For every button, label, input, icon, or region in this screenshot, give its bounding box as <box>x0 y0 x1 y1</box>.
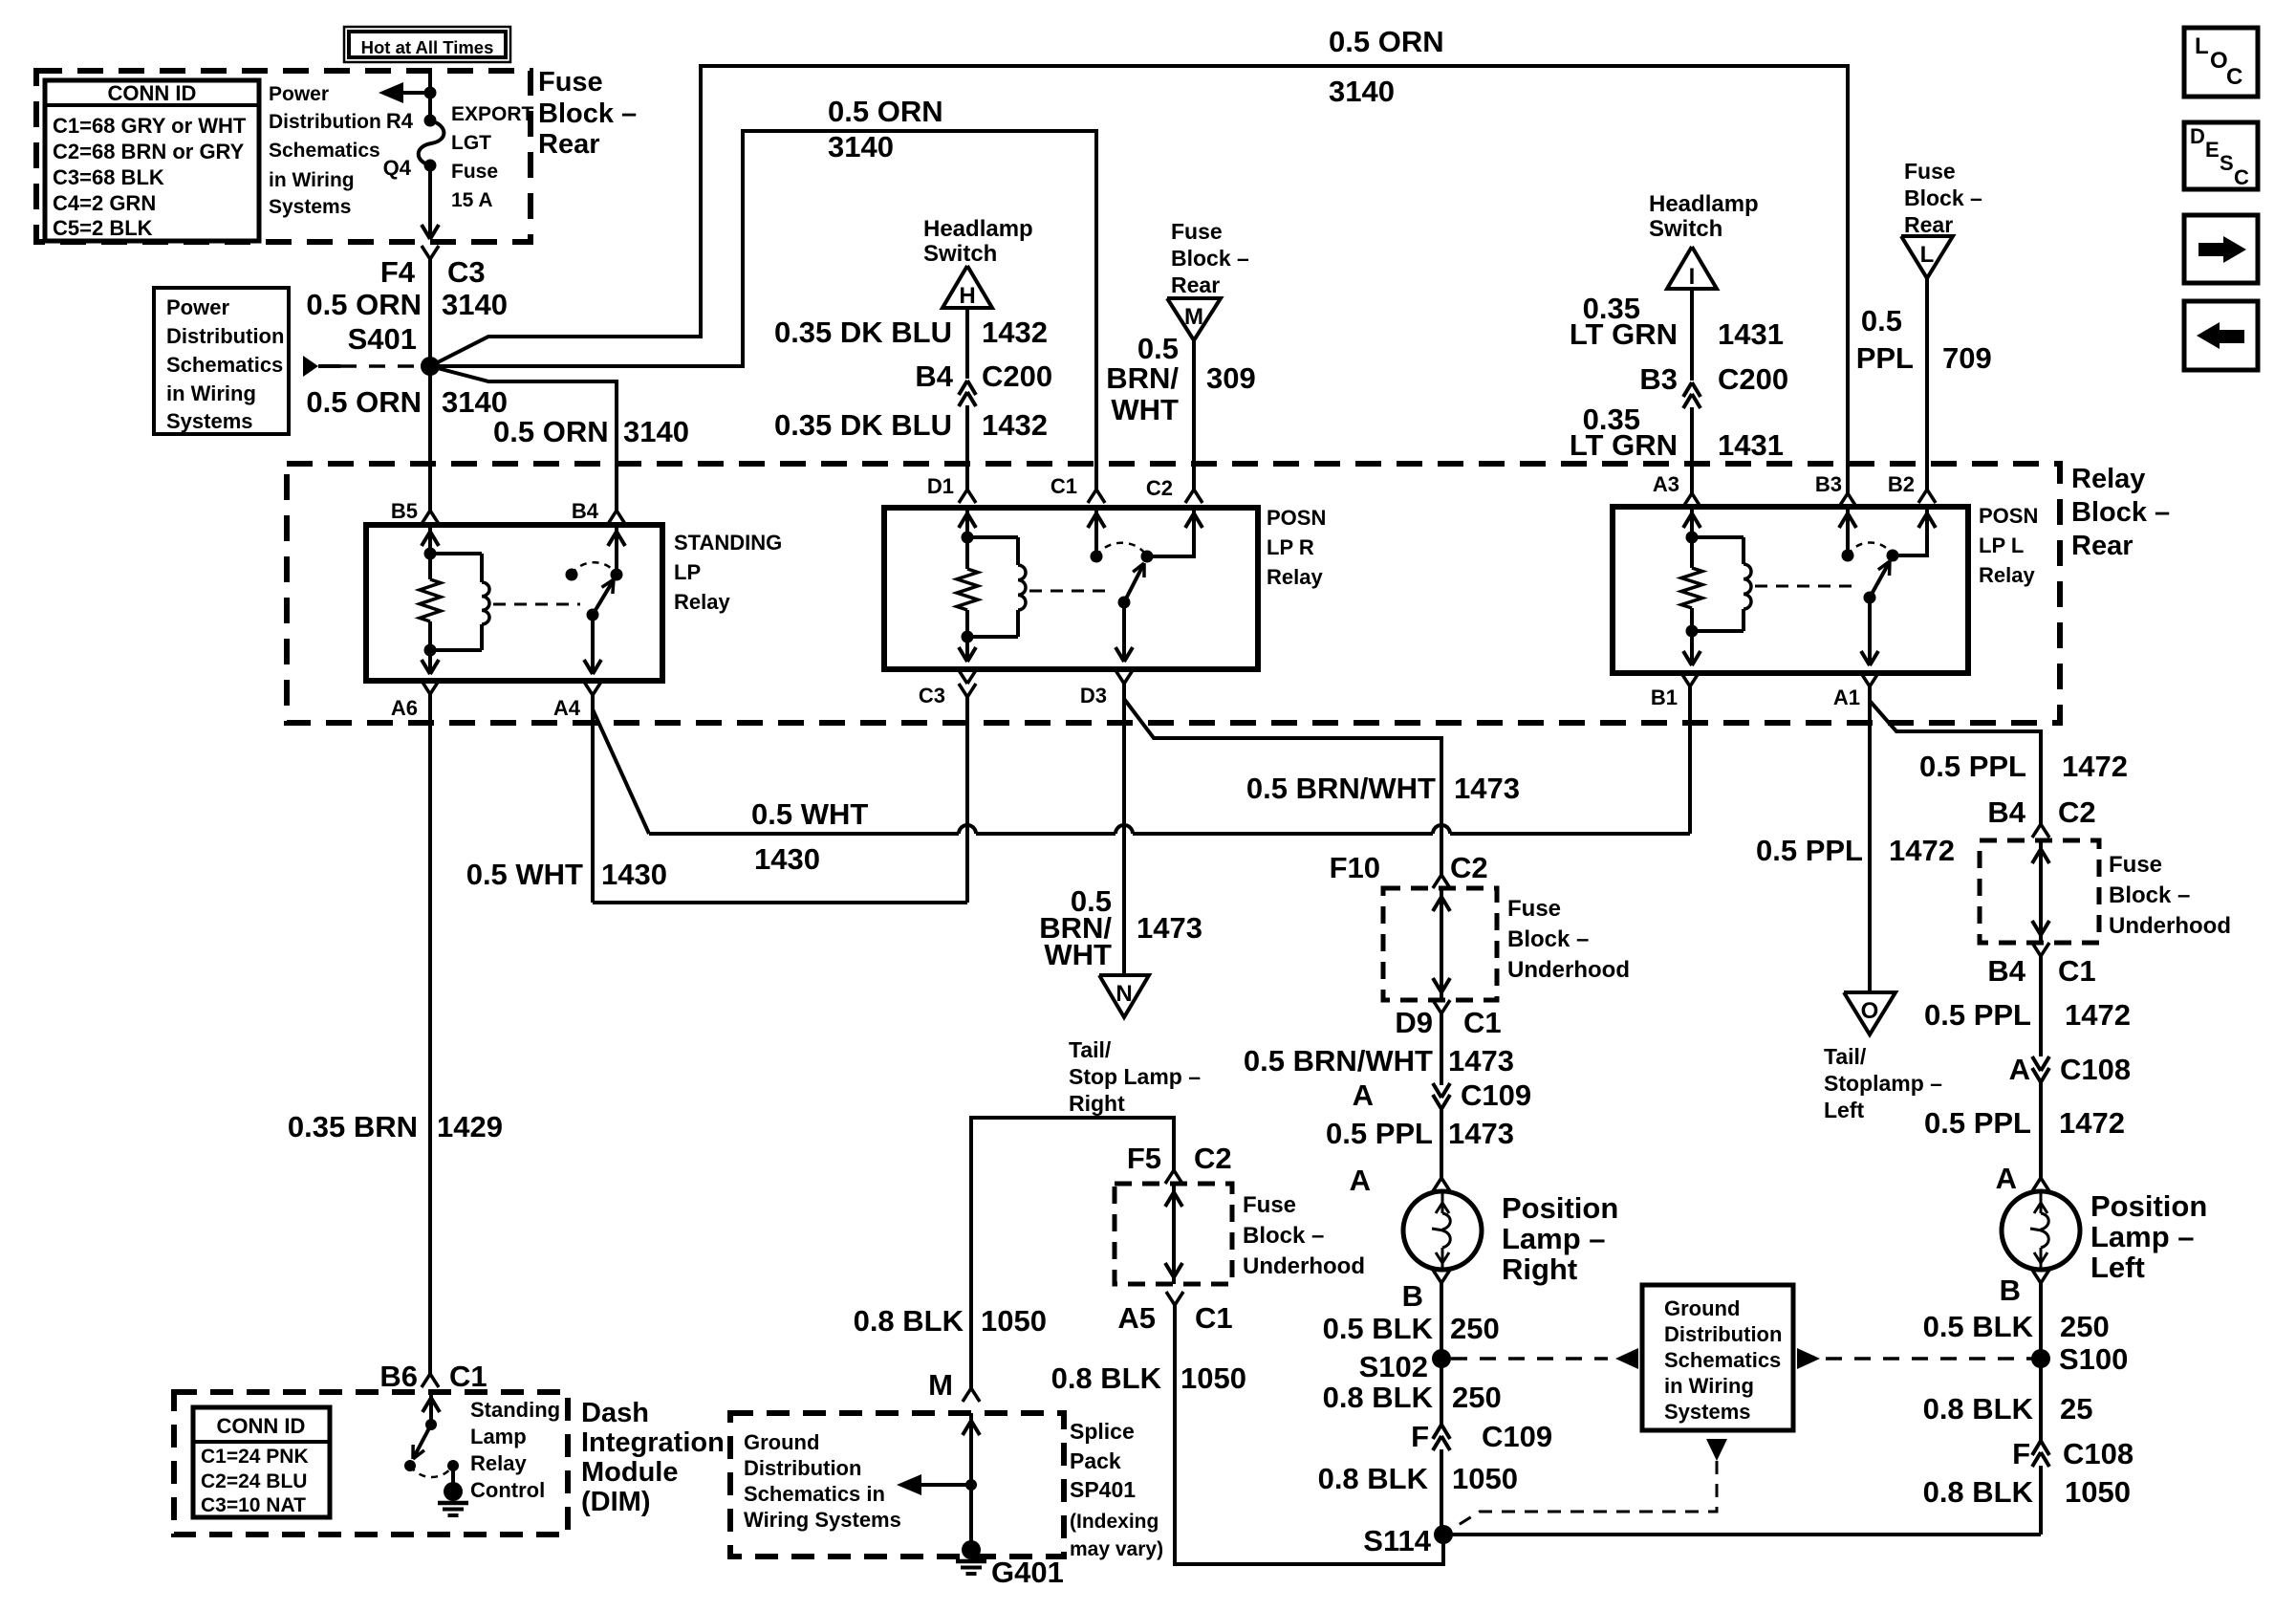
svg-text:Rear: Rear <box>2071 531 2134 561</box>
svg-text:B4: B4 <box>915 359 953 393</box>
svg-text:CONN ID: CONN ID <box>217 1414 306 1438</box>
svg-text:B5: B5 <box>391 499 418 523</box>
svg-text:0.5 WHT: 0.5 WHT <box>751 797 868 831</box>
svg-text:0.5 PPL: 0.5 PPL <box>1326 1117 1433 1150</box>
svg-text:Relay: Relay <box>674 590 730 614</box>
svg-text:(Indexing: (Indexing <box>1070 1511 1159 1533</box>
svg-text:Module: Module <box>581 1457 679 1488</box>
svg-text:0.8 BLK: 0.8 BLK <box>1051 1361 1162 1395</box>
svg-text:Fuse: Fuse <box>2109 852 2162 878</box>
svg-text:F: F <box>1411 1420 1429 1453</box>
svg-text:0.5 PPL: 0.5 PPL <box>1924 998 2031 1032</box>
svg-text:Relay: Relay <box>470 1451 527 1475</box>
svg-text:C108: C108 <box>2060 1053 2131 1086</box>
svg-text:LT GRN: LT GRN <box>1570 428 1678 462</box>
svg-text:Block –: Block – <box>1171 246 1249 271</box>
svg-text:A1: A1 <box>1833 686 1860 709</box>
svg-text:0.5 ORN: 0.5 ORN <box>306 385 422 419</box>
svg-text:1473: 1473 <box>1448 1117 1514 1150</box>
svg-text:250: 250 <box>1450 1312 1500 1345</box>
svg-text:BRN/: BRN/ <box>1106 361 1179 395</box>
svg-text:R4: R4 <box>386 109 414 133</box>
svg-text:C109: C109 <box>1482 1420 1552 1453</box>
svg-text:Integration: Integration <box>581 1427 725 1458</box>
svg-text:Right: Right <box>1069 1091 1125 1116</box>
svg-text:N: N <box>1116 981 1132 1007</box>
svg-text:L: L <box>2195 33 2209 59</box>
svg-text:C4=2 GRN: C4=2 GRN <box>53 191 156 215</box>
svg-text:B: B <box>1402 1279 1423 1313</box>
svg-text:1050: 1050 <box>981 1304 1047 1338</box>
svg-text:C3: C3 <box>919 684 945 708</box>
svg-text:C: C <box>2226 64 2242 90</box>
svg-text:3140: 3140 <box>442 385 508 419</box>
svg-text:0.8 BLK: 0.8 BLK <box>1923 1392 2034 1426</box>
svg-text:L: L <box>1920 242 1935 268</box>
svg-text:15 A: 15 A <box>451 189 493 211</box>
svg-text:Switch: Switch <box>923 241 997 267</box>
svg-text:3140: 3140 <box>828 130 894 163</box>
svg-text:LP R: LP R <box>1267 535 1314 559</box>
svg-text:S100: S100 <box>2059 1342 2128 1376</box>
svg-text:Block –: Block – <box>538 98 637 129</box>
svg-text:Schematics: Schematics <box>166 353 283 377</box>
svg-text:C200: C200 <box>1718 362 1788 396</box>
svg-text:0.8 BLK: 0.8 BLK <box>1923 1475 2034 1509</box>
svg-text:SP401: SP401 <box>1070 1477 1136 1502</box>
svg-text:B3: B3 <box>1639 362 1678 396</box>
svg-text:0.5 ORN: 0.5 ORN <box>828 95 943 128</box>
svg-text:in Wiring: in Wiring <box>269 169 355 191</box>
svg-text:LT GRN: LT GRN <box>1570 317 1678 351</box>
svg-text:Rear: Rear <box>538 129 600 160</box>
svg-text:1430: 1430 <box>754 842 820 876</box>
svg-text:250: 250 <box>1452 1381 1502 1414</box>
svg-text:0.5 BRN/WHT: 0.5 BRN/WHT <box>1246 772 1436 805</box>
svg-text:A: A <box>1350 1164 1371 1197</box>
svg-text:Headlamp: Headlamp <box>1649 191 1759 217</box>
svg-text:A5: A5 <box>1117 1301 1156 1335</box>
svg-text:Relay: Relay <box>1267 565 1323 589</box>
svg-text:(DIM): (DIM) <box>581 1487 650 1517</box>
svg-text:Lamp –: Lamp – <box>2090 1220 2195 1253</box>
svg-text:1432: 1432 <box>982 408 1048 442</box>
svg-text:Right: Right <box>1502 1252 1577 1286</box>
svg-text:I: I <box>1689 264 1696 290</box>
svg-text:C2: C2 <box>2058 795 2096 829</box>
svg-text:PPL: PPL <box>1856 341 1914 375</box>
svg-text:F5: F5 <box>1127 1142 1161 1175</box>
svg-text:1432: 1432 <box>982 316 1048 349</box>
svg-text:Dash: Dash <box>581 1398 649 1428</box>
svg-text:LGT: LGT <box>451 132 491 154</box>
svg-text:F: F <box>2012 1437 2030 1470</box>
svg-text:Tail/: Tail/ <box>1069 1037 1112 1062</box>
svg-text:B: B <box>2000 1274 2021 1307</box>
svg-text:Headlamp: Headlamp <box>923 216 1033 242</box>
svg-text:S: S <box>2220 151 2234 175</box>
svg-text:1429: 1429 <box>437 1110 503 1143</box>
svg-text:D: D <box>2190 124 2205 148</box>
svg-text:C1=68 GRY or WHT: C1=68 GRY or WHT <box>53 114 247 138</box>
svg-text:Block –: Block – <box>1507 926 1589 952</box>
svg-text:Fuse: Fuse <box>451 161 498 183</box>
svg-text:1430: 1430 <box>601 858 667 891</box>
svg-text:B2: B2 <box>1888 472 1915 496</box>
svg-text:C1: C1 <box>1051 474 1077 498</box>
svg-text:C: C <box>2234 165 2249 189</box>
svg-text:Power: Power <box>166 295 229 319</box>
svg-text:Q4: Q4 <box>383 156 412 180</box>
svg-text:C108: C108 <box>2063 1437 2134 1470</box>
svg-text:1050: 1050 <box>1180 1361 1246 1395</box>
svg-text:CONN ID: CONN ID <box>108 81 197 105</box>
svg-text:Systems: Systems <box>166 409 253 433</box>
svg-text:B4: B4 <box>1987 795 2025 829</box>
svg-text:Left: Left <box>1824 1098 1865 1122</box>
svg-text:LP: LP <box>674 560 701 584</box>
svg-text:Underhood: Underhood <box>2109 913 2231 939</box>
svg-text:WHT: WHT <box>1111 393 1179 426</box>
svg-text:B3: B3 <box>1815 472 1842 496</box>
svg-text:0.8 BLK: 0.8 BLK <box>1323 1381 1434 1414</box>
svg-text:0.5 BLK: 0.5 BLK <box>1923 1310 2034 1343</box>
svg-text:25: 25 <box>2060 1392 2092 1426</box>
svg-text:1472: 1472 <box>2062 750 2128 783</box>
svg-text:Fuse: Fuse <box>1243 1192 1296 1218</box>
svg-text:0.5 ORN: 0.5 ORN <box>306 288 422 321</box>
svg-text:O: O <box>2210 48 2228 74</box>
svg-text:STANDING: STANDING <box>674 531 782 555</box>
svg-text:1473: 1473 <box>1448 1044 1514 1078</box>
svg-text:Power: Power <box>269 83 329 105</box>
svg-text:D1: D1 <box>927 474 954 498</box>
svg-text:M: M <box>1184 304 1203 330</box>
svg-text:1473: 1473 <box>1137 911 1202 945</box>
svg-text:Underhood: Underhood <box>1243 1253 1365 1279</box>
svg-text:Control: Control <box>470 1478 545 1502</box>
svg-text:WHT: WHT <box>1044 938 1112 971</box>
svg-text:Rear: Rear <box>1904 212 1953 237</box>
svg-text:0.5 BLK: 0.5 BLK <box>1323 1312 1434 1345</box>
svg-text:Hot at All Times: Hot at All Times <box>361 37 494 57</box>
svg-text:Fuse: Fuse <box>538 67 603 98</box>
svg-text:Fuse: Fuse <box>1904 159 1956 184</box>
svg-text:Schematics: Schematics <box>1664 1348 1781 1372</box>
svg-text:LP L: LP L <box>1979 533 2024 557</box>
svg-text:1472: 1472 <box>2059 1106 2125 1140</box>
svg-text:Ground: Ground <box>744 1430 819 1454</box>
svg-text:Pack: Pack <box>1070 1448 1121 1473</box>
svg-text:0.5 PPL: 0.5 PPL <box>1919 750 2026 783</box>
svg-text:C109: C109 <box>1461 1078 1531 1112</box>
svg-text:Systems: Systems <box>269 196 351 218</box>
svg-text:Block –: Block – <box>2071 497 2170 528</box>
svg-text:B4: B4 <box>1987 954 2025 988</box>
svg-text:Distribution: Distribution <box>744 1456 861 1480</box>
svg-text:0.35 BRN: 0.35 BRN <box>288 1110 418 1143</box>
svg-text:C3=10 NAT: C3=10 NAT <box>201 1494 306 1516</box>
svg-text:Rear: Rear <box>1171 272 1220 297</box>
svg-text:Relay: Relay <box>2071 464 2145 494</box>
svg-text:Distribution: Distribution <box>269 111 381 133</box>
svg-text:POSN: POSN <box>1979 504 2038 528</box>
svg-text:Splice: Splice <box>1070 1419 1135 1444</box>
svg-text:1050: 1050 <box>1452 1462 1518 1495</box>
svg-text:1050: 1050 <box>2065 1475 2131 1509</box>
svg-text:Fuse: Fuse <box>1507 896 1561 922</box>
svg-text:C5=2 BLK: C5=2 BLK <box>53 216 153 240</box>
svg-text:709: 709 <box>1942 341 1992 375</box>
svg-text:Stoplamp –: Stoplamp – <box>1824 1071 1942 1096</box>
svg-text:C1: C1 <box>1463 1006 1502 1039</box>
svg-text:1472: 1472 <box>2065 998 2131 1032</box>
svg-text:Switch: Switch <box>1649 216 1722 242</box>
svg-text:may vary): may vary) <box>1070 1538 1163 1560</box>
svg-text:B4: B4 <box>572 499 599 523</box>
svg-text:M: M <box>928 1368 953 1402</box>
svg-text:Lamp –: Lamp – <box>1502 1222 1606 1255</box>
svg-text:3140: 3140 <box>623 415 689 448</box>
svg-text:B6: B6 <box>379 1360 418 1393</box>
svg-text:0.5 ORN: 0.5 ORN <box>493 415 609 448</box>
svg-text:Underhood: Underhood <box>1507 957 1630 983</box>
svg-text:A4: A4 <box>553 696 581 720</box>
svg-text:0.5 WHT: 0.5 WHT <box>466 858 583 891</box>
svg-text:Standing: Standing <box>470 1398 560 1422</box>
svg-text:A6: A6 <box>391 696 418 720</box>
svg-text:1431: 1431 <box>1718 317 1784 351</box>
svg-text:C3: C3 <box>447 255 486 289</box>
svg-text:3140: 3140 <box>1329 75 1395 108</box>
svg-text:O: O <box>1861 998 1879 1024</box>
svg-text:0.8 BLK: 0.8 BLK <box>1318 1462 1429 1495</box>
svg-text:0.5 ORN: 0.5 ORN <box>1329 25 1444 58</box>
svg-text:A: A <box>1996 1162 2017 1195</box>
svg-text:0.5: 0.5 <box>1861 304 1902 337</box>
svg-text:F10: F10 <box>1330 851 1380 884</box>
svg-text:3140: 3140 <box>442 288 508 321</box>
svg-text:C2: C2 <box>1146 476 1173 500</box>
svg-text:Tail/: Tail/ <box>1824 1044 1867 1069</box>
svg-text:G401: G401 <box>991 1556 1064 1589</box>
svg-text:Block –: Block – <box>1243 1223 1324 1249</box>
svg-text:B1: B1 <box>1651 686 1678 709</box>
svg-text:S114: S114 <box>1363 1524 1431 1557</box>
svg-text:C1=24 PNK: C1=24 PNK <box>201 1446 309 1468</box>
svg-text:Left: Left <box>2090 1251 2145 1284</box>
svg-text:C2=24 BLU: C2=24 BLU <box>201 1470 307 1492</box>
svg-text:A3: A3 <box>1653 472 1679 496</box>
svg-text:Distribution: Distribution <box>166 324 284 348</box>
svg-text:S102: S102 <box>1359 1350 1428 1383</box>
svg-text:Position: Position <box>1502 1191 1618 1225</box>
svg-text:1431: 1431 <box>1718 428 1784 462</box>
svg-text:Lamp: Lamp <box>470 1425 527 1448</box>
svg-text:1472: 1472 <box>1889 834 1955 867</box>
svg-text:A: A <box>1353 1078 1374 1112</box>
svg-text:in Wiring: in Wiring <box>166 381 256 405</box>
svg-text:Schematics in: Schematics in <box>744 1482 885 1506</box>
svg-text:D3: D3 <box>1080 684 1107 708</box>
svg-text:S401: S401 <box>348 322 417 356</box>
svg-text:0.5 BRN/WHT: 0.5 BRN/WHT <box>1244 1044 1433 1078</box>
svg-text:in Wiring: in Wiring <box>1664 1374 1754 1398</box>
svg-text:Stop Lamp –: Stop Lamp – <box>1069 1064 1201 1089</box>
svg-text:A: A <box>2009 1053 2030 1086</box>
svg-text:0.8 BLK: 0.8 BLK <box>854 1304 964 1338</box>
svg-text:H: H <box>959 283 975 309</box>
svg-text:0.5 PPL: 0.5 PPL <box>1924 1106 2031 1140</box>
svg-text:Block –: Block – <box>2109 882 2190 908</box>
svg-text:0.35 DK BLU: 0.35 DK BLU <box>774 316 952 349</box>
svg-text:250: 250 <box>2060 1310 2110 1343</box>
svg-text:C2=68 BRN or GRY: C2=68 BRN or GRY <box>53 140 245 163</box>
svg-text:Distribution: Distribution <box>1664 1322 1782 1346</box>
svg-text:0.35 DK BLU: 0.35 DK BLU <box>774 408 952 442</box>
svg-text:0.5 PPL: 0.5 PPL <box>1756 834 1863 867</box>
svg-text:F4: F4 <box>380 255 416 289</box>
svg-text:C1: C1 <box>2058 954 2096 988</box>
svg-text:1473: 1473 <box>1454 772 1520 805</box>
svg-text:Relay: Relay <box>1979 563 2035 587</box>
svg-text:E: E <box>2205 138 2220 162</box>
svg-text:C3=68 BLK: C3=68 BLK <box>53 165 164 189</box>
svg-text:Systems: Systems <box>1664 1400 1751 1424</box>
svg-text:D9: D9 <box>1395 1006 1433 1039</box>
svg-text:C200: C200 <box>982 359 1052 393</box>
svg-text:Ground: Ground <box>1664 1296 1740 1320</box>
svg-text:Wiring Systems: Wiring Systems <box>744 1508 901 1532</box>
svg-text:C1: C1 <box>449 1360 487 1393</box>
svg-text:Fuse: Fuse <box>1171 219 1223 244</box>
svg-text:C2: C2 <box>1194 1142 1232 1175</box>
svg-text:Position: Position <box>2090 1189 2207 1223</box>
svg-text:Schematics: Schematics <box>269 140 380 162</box>
svg-text:Block –: Block – <box>1904 185 1982 210</box>
svg-text:C2: C2 <box>1450 851 1488 884</box>
svg-text:EXPORT: EXPORT <box>451 103 534 125</box>
svg-text:309: 309 <box>1206 361 1256 395</box>
svg-text:POSN: POSN <box>1267 506 1326 530</box>
svg-text:0.5: 0.5 <box>1137 332 1179 365</box>
svg-text:C1: C1 <box>1195 1301 1233 1335</box>
